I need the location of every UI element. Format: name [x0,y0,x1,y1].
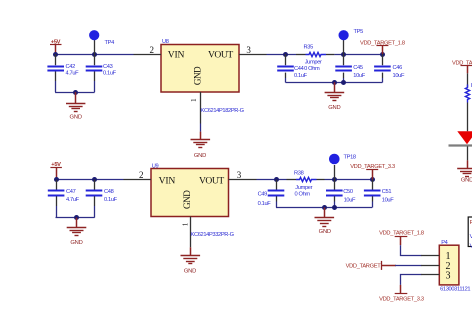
node junction C45 bottom [341,80,346,85]
pin 3 U8 [239,45,267,55]
svg-text:TP5: TP5 [354,29,364,35]
svg-text:VDD_TARGET_1.8: VDD_TARGET_1.8 [379,231,424,237]
svg-text:C45: C45 [353,65,363,71]
svg-text:0.1uF: 0.1uF [258,201,272,207]
node junction C44 [283,52,288,57]
svg-text:U9: U9 [152,163,159,169]
svg-text:KC6214P332PR-G: KC6214P332PR-G [191,232,234,238]
svg-text:4.7uF: 4.7uF [66,197,80,203]
svg-text:VDD_TARGET_3.3: VDD_TARGET_3.3 [379,297,424,303]
svg-text:10uF: 10uF [393,73,405,79]
capacitor C47 [48,180,80,218]
svg-text:GND: GND [182,190,192,209]
wire bottom of input caps [55,92,95,94]
power port VDD_TARGET_1.8 (LED column, clipped) [452,60,472,73]
svg-text:GND: GND [194,153,206,159]
wire U9 out to R38 [257,179,287,181]
svg-text:0 Ohm: 0 Ohm [295,192,311,198]
svg-text:C44: C44 [294,66,304,72]
ground (LED column, clipped) [457,160,472,183]
node junction C46/VDD [380,52,385,57]
svg-text:P4: P4 [441,240,447,246]
power port VDD_TARGET_1.8 (P4 pin1) [379,231,424,246]
svg-text:C48: C48 [104,189,114,195]
svg-text:3: 3 [237,170,242,180]
LED D? (red, clipped) [449,131,472,160]
svg-text:10uF: 10uF [353,73,365,79]
pin 1 U8 [190,92,200,124]
pin 2 U8 [134,45,162,55]
capacitor C43 [86,54,117,92]
node junction at GND (bottom-left) [74,215,79,220]
svg-text:C43: C43 [103,64,113,70]
svg-text:3: 3 [246,45,251,55]
svg-text:TP4: TP4 [105,40,115,46]
svg-text:10uF: 10uF [382,198,394,204]
test point TP5 [339,29,364,54]
power port VDD_TARGET_3.3 (bottom cluster) [350,164,395,180]
svg-text:VDD_TARGET: VDD_TARGET [346,264,382,270]
svg-text:4.7uF: 4.7uF [66,71,80,77]
svg-text:VIN: VIN [159,175,176,186]
svg-text:10uF: 10uF [344,198,356,204]
svg-text:61300311121: 61300311121 [440,287,470,293]
connector P4 body [439,240,459,285]
ground (U8 pin1) [191,132,211,159]
pin 1 P4 [421,255,439,257]
wire bottom of output caps (bottom) [276,207,372,209]
resistor R38 [287,170,325,197]
svg-text:C50: C50 [343,189,353,195]
svg-text:VOUT: VOUT [199,175,224,186]
power port +5V (top) [50,40,62,55]
svg-text:U8: U8 [162,39,169,45]
svg-text:GND: GND [70,240,82,246]
pin 3 U9 [229,170,257,180]
pin 2 U9 [124,170,152,180]
ground (output caps, bottom) [315,208,335,236]
legend table (clipped at right edge) [468,217,472,249]
svg-text:GND: GND [328,105,340,111]
svg-text:C46: C46 [393,65,403,71]
svg-text:Jumper: Jumper [295,185,312,191]
svg-text:1: 1 [190,98,198,102]
resistor R35 [296,45,334,73]
pin 3 P4 [421,274,439,276]
pin 2 P4 [421,265,439,267]
test point TP4 [89,30,114,54]
svg-text:0.1uF: 0.1uF [294,73,308,79]
op-amp U9 regulator body [151,163,229,216]
svg-text:GND: GND [70,114,82,120]
power port VDD_TARGET (P4 pin2) [346,261,396,270]
capacitor C51 [364,180,394,208]
wire pin1 to gnd [200,124,202,132]
svg-text:TP18: TP18 [344,154,356,160]
node junction TP5/C45 [341,52,346,57]
wire top rail [56,54,134,56]
capacitor C45 [335,54,365,83]
node junction C50 bottom [332,205,337,210]
test point TP18 [329,154,356,180]
node junction at C43/TP4 [92,52,97,57]
wire to resistor [467,73,469,87]
node junction at C48 [92,177,97,182]
capacitor C42 [47,54,79,92]
svg-text:2: 2 [139,170,144,180]
ground (output caps, top) [325,82,345,111]
svg-text:R38: R38 [294,170,304,176]
pin 1 U9 [181,217,190,248]
svg-text:0 Ohm: 0 Ohm [304,66,320,72]
svg-text:R35: R35 [304,45,314,51]
capacitor C49 [258,180,285,208]
wire P4 pin3 [401,275,422,285]
ground (input caps, top) [66,92,85,120]
svg-text:3: 3 [446,270,451,281]
svg-text:GND: GND [461,177,472,183]
node junction TP18/C50 [332,177,337,182]
node junction at +5V/C47 [54,177,59,182]
capacitor C50 [326,180,356,208]
wire R35 to TP5 node [334,54,382,56]
svg-text:2: 2 [150,45,155,55]
power port +5V (bottom) [50,162,62,179]
svg-text:C49: C49 [258,191,268,197]
node junction gnd stem (bottom) [322,205,327,210]
capacitor C48 [86,180,118,218]
node junction at GND [73,90,78,95]
svg-text:GND: GND [184,269,196,275]
ground (input caps, bottom) [67,218,87,246]
capacitor C44 [277,54,307,83]
ground (U9 pin1) [181,247,201,274]
svg-text:VIN: VIN [168,50,185,61]
svg-text:0.1uF: 0.1uF [104,197,118,203]
power port VDD_TARGET_3.3 (P4 pin3) [379,285,424,303]
wire bottom rail [56,179,123,181]
node junction C51/VDD [370,177,375,182]
wire U8 out to R35 [267,54,297,56]
wire P4 pin2 [395,265,422,267]
wire bottom of output caps (top) [286,82,383,84]
node junction at +5V/C42 [53,52,58,57]
wire bottom of input caps (bottom) [56,217,95,219]
node junction gnd stem [332,80,337,85]
svg-text:GND: GND [192,66,202,85]
node junction C49 [274,177,279,182]
svg-text:C51: C51 [382,189,392,195]
svg-text:C42: C42 [66,64,76,70]
op-amp U8 regulator body [161,39,239,92]
power port VDD_TARGET_1.8 (top) [360,40,405,54]
svg-text:Jumper: Jumper [305,59,322,65]
wire P4 pin1 [401,245,422,255]
svg-text:KC6214P182PR-G: KC6214P182PR-G [201,108,244,114]
svg-text:0.1uF: 0.1uF [103,71,117,77]
svg-text:1: 1 [181,222,189,226]
svg-text:VOUT: VOUT [208,50,233,61]
svg-text:GND: GND [319,229,331,235]
wire R38 to TP18 node [325,179,373,181]
capacitor C46 [374,54,405,83]
resistor R36 (vertical) [465,83,472,131]
svg-text:C47: C47 [66,189,76,195]
